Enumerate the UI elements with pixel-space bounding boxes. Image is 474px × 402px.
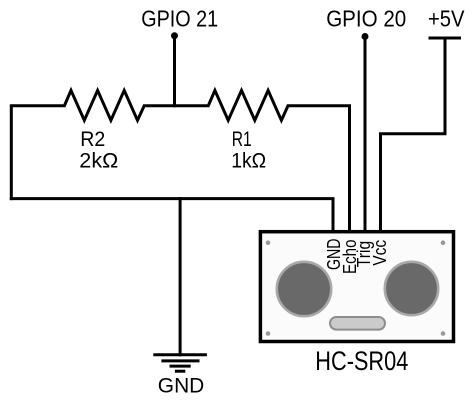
svg-text:GPIO 20: GPIO 20 [326, 6, 406, 32]
svg-text:GPIO 21: GPIO 21 [141, 6, 218, 32]
svg-text:Vcc: Vcc [369, 240, 390, 266]
svg-text:1kΩ: 1kΩ [231, 148, 266, 172]
svg-text:2kΩ: 2kΩ [79, 148, 118, 172]
svg-text:GND: GND [158, 374, 205, 398]
svg-text:+5V: +5V [428, 6, 465, 32]
svg-text:HC-SR04: HC-SR04 [315, 346, 408, 376]
